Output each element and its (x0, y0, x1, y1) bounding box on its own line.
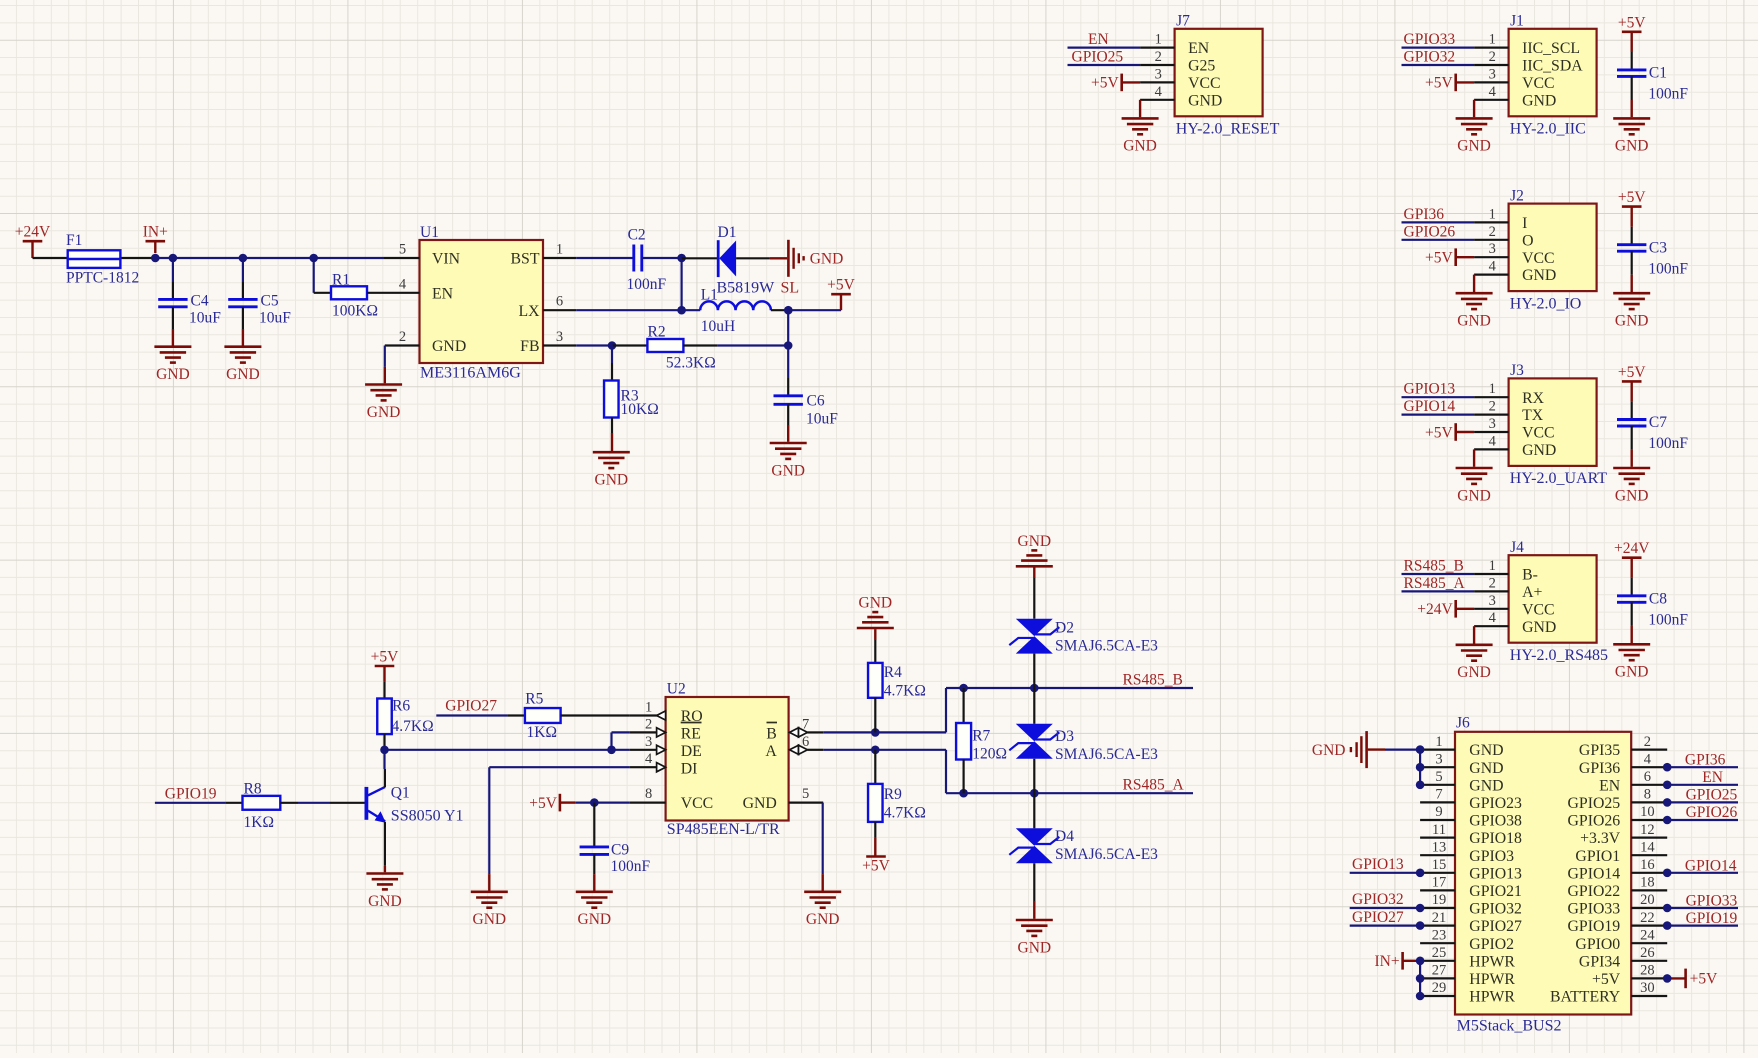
svg-text:4.7KΩ: 4.7KΩ (392, 718, 434, 735)
svg-text:13: 13 (1432, 839, 1447, 855)
wire B net (823, 688, 1193, 732)
fuse F1 (33, 232, 156, 286)
diode D4 (1009, 793, 1158, 901)
svg-text:J4: J4 (1510, 539, 1524, 556)
net label GPI36 (1404, 206, 1445, 223)
ground (1016, 533, 1053, 578)
ground (1613, 293, 1650, 329)
diode D2 (1009, 578, 1158, 688)
svg-text:R6: R6 (392, 698, 410, 715)
resistor R1 (314, 271, 378, 319)
net label GPIO32 (1352, 891, 1404, 908)
junction (1416, 763, 1425, 772)
svg-text:GPIO38: GPIO38 (1469, 813, 1522, 830)
junction (871, 746, 880, 755)
svg-text:GPIO3: GPIO3 (1469, 848, 1514, 865)
capacitor C7 (1617, 414, 1688, 452)
power +24V (1614, 540, 1650, 558)
net label GPIO32 (1404, 49, 1456, 66)
svg-text:VCC: VCC (1522, 75, 1554, 92)
inductor L1 (700, 287, 788, 336)
junction (608, 341, 617, 350)
net label GPIO26 (1404, 223, 1456, 240)
junction (1416, 992, 1425, 1001)
junction (1416, 745, 1425, 754)
svg-text:100nF: 100nF (611, 858, 651, 875)
capacitor C9 (580, 803, 651, 875)
svg-text:GND: GND (226, 366, 260, 383)
wire FB (576, 344, 612, 346)
wire (1667, 819, 1738, 821)
svg-text:C5: C5 (261, 293, 279, 310)
junction (151, 254, 160, 263)
svg-text:7: 7 (802, 716, 809, 732)
svg-text:J3: J3 (1510, 362, 1524, 379)
capacitor C6 (774, 378, 839, 428)
svg-text:DE: DE (681, 743, 702, 760)
svg-text:9: 9 (1435, 804, 1442, 820)
svg-text:GPI34: GPI34 (1579, 953, 1620, 970)
svg-text:J7: J7 (1176, 13, 1190, 30)
svg-text:GND: GND (432, 338, 466, 355)
svg-text:GPIO27: GPIO27 (1469, 918, 1522, 935)
svg-text:4: 4 (1489, 433, 1497, 449)
net label GPIO27 (445, 698, 497, 715)
resistor R8 (243, 781, 281, 832)
svg-text:+24V: +24V (1614, 540, 1650, 557)
svg-text:3: 3 (556, 329, 563, 345)
svg-text:4: 4 (645, 751, 653, 767)
ground (804, 874, 841, 928)
svg-text:C9: C9 (611, 842, 629, 859)
svg-text:1: 1 (1489, 32, 1496, 48)
svg-text:SS8050 Y1: SS8050 Y1 (391, 807, 464, 824)
svg-text:GPIO13: GPIO13 (1404, 381, 1456, 398)
svg-text:27: 27 (1432, 963, 1447, 979)
wire (1350, 872, 1420, 874)
wire (1630, 381, 1632, 419)
svg-text:+5V: +5V (1425, 424, 1453, 441)
ground (1456, 449, 1493, 504)
junction (1663, 974, 1672, 983)
wire to +5V (788, 309, 841, 311)
ground (224, 329, 261, 383)
svg-text:C2: C2 (628, 227, 646, 244)
svg-text:GPIO25: GPIO25 (1568, 795, 1621, 812)
capacitor C1 (1617, 65, 1688, 103)
junction (1416, 974, 1425, 983)
ground (1613, 118, 1650, 154)
svg-text:M5Stack_BUS2: M5Stack_BUS2 (1457, 1017, 1562, 1034)
svg-text:EN: EN (432, 285, 454, 302)
wire EN branch (313, 258, 315, 293)
svg-text:C8: C8 (1649, 590, 1667, 607)
svg-text:ME3116AM6G: ME3116AM6G (420, 365, 521, 382)
wire (1631, 76, 1633, 117)
wire (1667, 907, 1738, 909)
junction (607, 746, 616, 755)
resistor R3 (604, 363, 659, 433)
svg-text:GPIO33: GPIO33 (1404, 31, 1456, 48)
ground (1456, 626, 1493, 681)
svg-text:BATTERY: BATTERY (1550, 989, 1620, 1006)
svg-text:SMAJ6.5CA-E3: SMAJ6.5CA-E3 (1055, 846, 1158, 863)
wire +5V branch (787, 310, 789, 378)
svg-text:GPIO26: GPIO26 (1686, 804, 1738, 821)
svg-text:GPI36: GPI36 (1579, 760, 1620, 777)
capacitor C5 (228, 282, 291, 329)
svg-text:U2: U2 (667, 681, 686, 698)
wire (1402, 590, 1475, 592)
wire (1667, 766, 1738, 768)
svg-text:VCC: VCC (1522, 601, 1554, 618)
svg-text:1: 1 (1489, 206, 1496, 222)
svg-text:1: 1 (1489, 381, 1496, 397)
svg-text:GPIO23: GPIO23 (1469, 795, 1522, 812)
svg-text:B5819W: B5819W (717, 279, 776, 296)
svg-text:EN: EN (1088, 31, 1109, 48)
svg-text:GPI36: GPI36 (1685, 752, 1726, 769)
svg-text:GND: GND (1469, 777, 1503, 794)
svg-text:4: 4 (1644, 751, 1652, 767)
svg-text:SL: SL (781, 279, 800, 296)
svg-text:GND: GND (1123, 138, 1157, 155)
ground (1613, 644, 1650, 680)
svg-text:R2: R2 (648, 324, 666, 341)
svg-text:1: 1 (645, 700, 652, 716)
svg-text:10: 10 (1640, 804, 1655, 820)
wire (1402, 396, 1475, 398)
power +24V (15, 224, 51, 258)
junction (959, 684, 968, 693)
junction (1663, 816, 1672, 825)
svg-text:+3.3V: +3.3V (1580, 830, 1621, 847)
svg-text:2: 2 (1489, 399, 1496, 415)
svg-text:D3: D3 (1055, 728, 1074, 745)
junction (1663, 763, 1672, 772)
wire R3 branch (611, 346, 613, 364)
ground (154, 329, 191, 383)
svg-text:8: 8 (1644, 787, 1651, 803)
svg-text:GPIO21: GPIO21 (1469, 883, 1522, 900)
svg-text:+24V: +24V (1417, 601, 1453, 618)
svg-text:L1: L1 (701, 287, 718, 304)
svg-text:GND: GND (1615, 664, 1649, 681)
power +24V (1417, 600, 1474, 618)
wire (1667, 872, 1738, 874)
svg-text:HY-2.0_UART: HY-2.0_UART (1510, 470, 1607, 487)
svg-text:GND: GND (1018, 939, 1052, 956)
ground (770, 425, 807, 479)
wire (1402, 221, 1475, 223)
wire LX (576, 309, 700, 311)
svg-text:BST: BST (511, 251, 540, 268)
svg-text:GPIO14: GPIO14 (1404, 398, 1456, 415)
svg-text:GND: GND (1522, 442, 1556, 459)
svg-text:16: 16 (1640, 857, 1655, 873)
power IN+ (143, 224, 168, 253)
svg-text:U1: U1 (420, 224, 439, 241)
svg-text:2: 2 (645, 716, 652, 732)
svg-text:G25: G25 (1188, 58, 1215, 75)
ground (366, 866, 403, 910)
power +5V (1667, 969, 1718, 989)
svg-text:EN: EN (1702, 769, 1723, 786)
wire (1667, 801, 1738, 803)
svg-text:I: I (1522, 215, 1527, 232)
svg-text:5: 5 (399, 242, 406, 258)
wire collector (383, 750, 385, 769)
net label EN (1088, 31, 1109, 48)
net label GPIO27 (1352, 909, 1404, 926)
svg-text:100nF: 100nF (1648, 435, 1688, 452)
svg-text:RS485_B: RS485_B (1404, 558, 1464, 575)
wire bootstrap (680, 258, 682, 310)
svg-text:6: 6 (802, 734, 809, 750)
svg-text:GPIO18: GPIO18 (1469, 830, 1522, 847)
svg-text:2: 2 (1489, 224, 1496, 240)
svg-text:IIC_SDA: IIC_SDA (1522, 58, 1583, 75)
power +5V (1618, 14, 1646, 32)
junction (1030, 684, 1039, 693)
svg-text:+5V: +5V (827, 277, 855, 294)
resistor R9 (868, 750, 926, 838)
diode D1 (682, 224, 776, 296)
ground (1613, 468, 1650, 504)
junction (169, 254, 178, 263)
svg-text:18: 18 (1640, 875, 1655, 891)
svg-text:LX: LX (518, 303, 540, 320)
svg-text:14: 14 (1640, 839, 1655, 855)
svg-text:120Ω: 120Ω (972, 746, 1007, 763)
resistor R7 (956, 688, 1007, 793)
svg-text:+5V: +5V (1091, 75, 1119, 92)
svg-text:10uH: 10uH (701, 318, 735, 335)
svg-text:GND: GND (1188, 92, 1222, 109)
wire BST (576, 257, 634, 259)
svg-text:HPWR: HPWR (1469, 989, 1515, 1006)
net label GPIO19 (165, 786, 217, 803)
connector J7 (1140, 13, 1279, 138)
svg-text:GPIO27: GPIO27 (445, 698, 497, 715)
svg-text:R4: R4 (884, 664, 902, 681)
net label GPIO14 (1404, 398, 1456, 415)
svg-text:GPIO2: GPIO2 (1469, 936, 1514, 953)
svg-text:O: O (1522, 232, 1533, 249)
svg-text:10uF: 10uF (259, 310, 291, 327)
svg-text:A: A (765, 743, 777, 760)
svg-text:+5V: +5V (371, 649, 399, 666)
junction (239, 254, 248, 263)
net label GPIO25 (1072, 49, 1124, 66)
svg-text:GND: GND (810, 251, 844, 268)
svg-text:GND: GND (743, 795, 777, 812)
svg-text:GPI36: GPI36 (1404, 206, 1445, 223)
ground (1456, 100, 1493, 155)
svg-text:GPIO14: GPIO14 (1568, 865, 1621, 882)
svg-text:GPIO26: GPIO26 (1404, 223, 1456, 240)
svg-text:PPTC-1812: PPTC-1812 (66, 269, 139, 286)
power +5V (827, 277, 855, 311)
wire C5 branch (242, 258, 244, 282)
ground (1122, 100, 1159, 155)
svg-text:4.7KΩ: 4.7KΩ (884, 683, 926, 700)
resistor R2 (613, 324, 718, 372)
svg-text:3: 3 (645, 734, 652, 750)
svg-text:GND: GND (578, 911, 612, 928)
svg-text:5: 5 (1435, 769, 1442, 785)
svg-text:GPIO32: GPIO32 (1469, 901, 1522, 918)
svg-text:22: 22 (1640, 910, 1655, 926)
svg-text:4.7KΩ: 4.7KΩ (884, 805, 926, 822)
svg-text:GPIO32: GPIO32 (1352, 891, 1404, 908)
wire (1667, 784, 1738, 786)
svg-text:Q1: Q1 (391, 785, 410, 802)
svg-text:HY-2.0_IIC: HY-2.0_IIC (1510, 121, 1586, 138)
power +5V (1091, 74, 1140, 92)
svg-text:J2: J2 (1510, 187, 1524, 204)
svg-text:J6: J6 (1456, 715, 1470, 732)
svg-text:GND: GND (1457, 487, 1491, 504)
wire C4 branch (172, 258, 174, 282)
svg-text:GND: GND (1615, 313, 1649, 330)
svg-text:26: 26 (1640, 945, 1655, 961)
svg-text:10KΩ: 10KΩ (621, 401, 659, 418)
svg-text:GND: GND (859, 595, 893, 612)
wire (1402, 573, 1475, 575)
svg-text:24: 24 (1640, 927, 1655, 943)
junction (871, 728, 880, 737)
net label GPIO19 (1686, 910, 1738, 927)
svg-text:1: 1 (1435, 734, 1442, 750)
svg-text:D4: D4 (1055, 828, 1074, 845)
svg-text:2: 2 (1489, 575, 1496, 591)
wire (1631, 602, 1633, 643)
svg-text:10uF: 10uF (189, 310, 221, 327)
net label SL (781, 279, 800, 296)
svg-text:+5V: +5V (862, 857, 890, 874)
ground (857, 595, 894, 640)
resistor R5 (525, 690, 630, 741)
svg-text:VCC: VCC (681, 795, 713, 812)
svg-text:GND: GND (1615, 138, 1649, 155)
junction (380, 746, 389, 755)
wire DE net (385, 749, 630, 751)
svg-text:4: 4 (1489, 84, 1497, 100)
net label GPIO26 (1686, 804, 1738, 821)
svg-text:3: 3 (1489, 416, 1496, 432)
junction (959, 789, 968, 798)
svg-text:GND: GND (806, 911, 840, 928)
power +5V (1618, 189, 1646, 207)
svg-text:VCC: VCC (1522, 425, 1554, 442)
svg-text:3: 3 (1155, 66, 1162, 82)
svg-text:1: 1 (1155, 32, 1162, 48)
svg-text:RX: RX (1522, 390, 1545, 407)
svg-text:C3: C3 (1649, 239, 1667, 256)
power +5V (862, 838, 890, 874)
wire gnd bus (1385, 750, 1420, 785)
svg-text:GPIO22: GPIO22 (1568, 883, 1621, 900)
svg-text:EN: EN (1188, 40, 1210, 57)
svg-text:IN+: IN+ (143, 224, 168, 241)
svg-text:23: 23 (1432, 927, 1447, 943)
power IN+ (1374, 952, 1420, 970)
svg-text:GPIO33: GPIO33 (1568, 901, 1621, 918)
net label GPIO33 (1686, 893, 1738, 910)
junction (1416, 781, 1425, 790)
svg-text:+5V: +5V (529, 795, 557, 812)
svg-text:GPIO13: GPIO13 (1352, 856, 1404, 873)
svg-text:GND: GND (1469, 742, 1503, 759)
junction (590, 798, 599, 807)
IC U1 (367, 224, 576, 382)
wire FB to C6 (718, 344, 788, 346)
junction (1416, 904, 1425, 913)
svg-text:GND: GND (368, 893, 402, 910)
svg-text:+5V: +5V (1618, 14, 1646, 31)
svg-text:B: B (766, 726, 777, 743)
power +5V (1425, 423, 1474, 441)
wire hpwr bus (1419, 961, 1421, 996)
svg-text:25: 25 (1432, 945, 1447, 961)
net label RS485_B (1404, 558, 1464, 575)
svg-text:GND: GND (1522, 267, 1556, 284)
junction (1416, 869, 1425, 878)
wire (1402, 46, 1475, 48)
svg-text:GND: GND (771, 462, 805, 479)
junction (309, 254, 318, 263)
resistor R6 (377, 682, 433, 750)
svg-text:GND: GND (1312, 742, 1346, 759)
resistor R4 (868, 640, 926, 732)
wire (1630, 207, 1632, 245)
svg-text:F1: F1 (66, 232, 82, 249)
svg-text:D1: D1 (718, 224, 737, 241)
svg-text:R9: R9 (884, 786, 902, 803)
svg-text:100nF: 100nF (1648, 611, 1688, 628)
svg-text:1KΩ: 1KΩ (527, 724, 557, 741)
net label RS485_B (1123, 672, 1183, 689)
connector J6 (1420, 715, 1667, 1035)
ground (365, 367, 402, 421)
svg-text:HY-2.0_IO: HY-2.0_IO (1510, 295, 1582, 312)
transistor Q1 (330, 769, 464, 866)
wire C2 out (642, 257, 682, 259)
junction (1663, 869, 1672, 878)
svg-text:RS485_B: RS485_B (1123, 672, 1183, 689)
wire U1 gnd (384, 346, 386, 367)
svg-text:R5: R5 (525, 690, 543, 707)
svg-text:SP485EEN-L/TR: SP485EEN-L/TR (667, 821, 780, 838)
diode D3 (1009, 688, 1158, 793)
ground (1312, 731, 1385, 768)
svg-text:29: 29 (1432, 980, 1447, 996)
wire A net (823, 750, 1193, 793)
svg-text:11: 11 (1432, 822, 1446, 838)
svg-text:HY-2.0_RS485: HY-2.0_RS485 (1510, 647, 1608, 664)
svg-text:1: 1 (1489, 558, 1496, 574)
power +5V (1425, 248, 1474, 266)
svg-text:VCC: VCC (1188, 75, 1220, 92)
svg-text:52.3KΩ: 52.3KΩ (666, 355, 716, 372)
wire (1631, 251, 1633, 292)
svg-text:4: 4 (1489, 259, 1497, 275)
wire R8 to base (280, 802, 330, 804)
junction (1030, 789, 1039, 798)
svg-text:GPI35: GPI35 (1579, 742, 1620, 759)
svg-text:D2: D2 (1055, 620, 1074, 637)
